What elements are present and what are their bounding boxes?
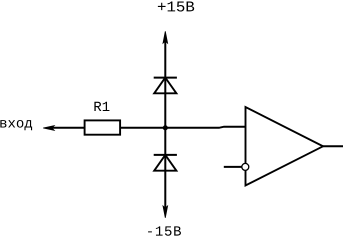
wire vertical rail	[164, 41, 166, 209]
diode VD2 bottom (cathode bar)	[154, 154, 177, 156]
label -15V supply	[148, 226, 181, 235]
arrow left to input	[43, 126, 54, 131]
op-amp U1 triangle	[246, 107, 324, 186]
wire R1 to node	[120, 127, 165, 129]
diode VD2 bottom (triangle)	[154, 155, 176, 171]
node junction dot	[163, 125, 168, 130]
diode VD1 top (triangle)	[154, 78, 176, 94]
wire output	[323, 145, 343, 147]
wire inverting input	[224, 166, 242, 168]
arrow up to +15V	[163, 31, 168, 43]
wire node to op-amp input	[165, 127, 245, 128]
label вход (input)	[0, 120, 32, 130]
label +15V supply	[158, 2, 194, 12]
diode VD1 top (cathode bar)	[154, 77, 177, 79]
inverting input bubble	[242, 163, 249, 170]
wire input to R1	[50, 127, 85, 129]
resistor R1 body	[85, 120, 121, 134]
label R1	[94, 102, 109, 111]
arrow down to -15V	[163, 206, 168, 218]
